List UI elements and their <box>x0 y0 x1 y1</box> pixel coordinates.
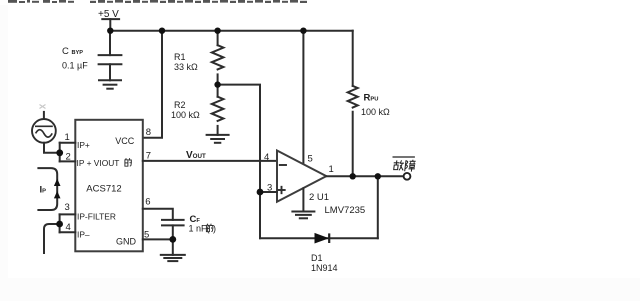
wire feedback up to + node <box>259 192 261 238</box>
svg-text:2: 2 <box>66 152 71 163</box>
svg-text:4: 4 <box>264 152 269 163</box>
wire R2 to ground <box>217 126 219 135</box>
svg-text:2 U1: 2 U1 <box>309 192 329 203</box>
svg-text:1N914: 1N914 <box>311 263 338 273</box>
capacitor C_BYP <box>99 54 122 56</box>
node CF pin5 <box>169 236 176 243</box>
node R1 top <box>214 28 220 34</box>
wire rail to R1 <box>217 31 219 46</box>
svg-text:3: 3 <box>65 202 70 213</box>
arrow IP up 2 <box>54 191 61 198</box>
ground (C_BYP) <box>99 79 121 81</box>
wire source to tie <box>44 143 60 153</box>
label fault char 1 (Chinese) <box>393 160 405 170</box>
wire pin3 stub <box>260 191 277 193</box>
cut-off caption text fragments (top edge) <box>8 0 307 3</box>
node R1/R2 divider <box>214 81 220 87</box>
svg-text:5: 5 <box>144 230 149 241</box>
svg-text:1: 1 <box>65 132 70 143</box>
node +5V entry <box>107 28 113 34</box>
wire source top stub <box>43 112 45 119</box>
svg-text:D1: D1 <box>311 253 323 263</box>
svg-text:R2: R2 <box>174 100 186 110</box>
wire pin3 stub <box>60 213 76 215</box>
ground (CF / ACS712 GND) <box>161 254 185 256</box>
wire C_BYP branch <box>109 31 111 55</box>
current source I symbol <box>32 119 56 143</box>
svg-text:1: 1 <box>329 164 334 175</box>
svg-text:6: 6 <box>145 197 150 208</box>
overline for fault label <box>393 156 415 158</box>
wire pin2 to ground <box>302 188 304 211</box>
wire feedback bottom run <box>260 237 378 239</box>
arrow IP up 1 <box>54 179 61 186</box>
node source tie <box>56 149 63 156</box>
wire top rail <box>110 30 352 32</box>
svg-text:R1: R1 <box>174 52 186 62</box>
wire pin4 exit left <box>44 224 60 253</box>
svg-text:100 kΩ: 100 kΩ <box>171 110 200 120</box>
wire RPU to output node <box>352 112 354 177</box>
svg-text:33 kΩ: 33 kΩ <box>174 62 198 72</box>
wire CF bottom <box>172 225 174 239</box>
svg-text:IP + VIOUT: IP + VIOUT <box>77 158 120 168</box>
wire pin6 to CF <box>143 209 173 220</box>
svg-text:3: 3 <box>267 183 272 194</box>
diode D1 <box>315 233 329 243</box>
svg-text:GND: GND <box>116 236 137 246</box>
node pin5 rail <box>300 28 306 34</box>
wire output <box>326 175 403 177</box>
wire pin5 drop <box>302 31 304 165</box>
svg-text:100 kΩ: 100 kΩ <box>361 107 390 117</box>
faint cropped mark above source <box>40 105 46 109</box>
svg-text:IP–: IP– <box>77 230 90 240</box>
IP loop wire with arrows <box>37 168 57 210</box>
wire pin1-pin2 tie <box>59 143 61 162</box>
wire divider node to comparator + input <box>218 85 260 192</box>
svg-text:IP+: IP+ <box>77 140 90 150</box>
wire pin4 stub <box>60 231 76 233</box>
wire C_BYP to ground <box>109 64 111 80</box>
resistor R2 <box>212 97 224 121</box>
minus input mark <box>280 164 286 166</box>
svg-text:4: 4 <box>66 222 71 233</box>
svg-text:): ) <box>213 224 216 234</box>
wire R1 to node <box>217 74 219 96</box>
svg-text:5: 5 <box>308 154 313 165</box>
svg-text:VCC: VCC <box>115 136 135 146</box>
label fault char 2 (Chinese) <box>405 160 416 172</box>
wire pin2 stub <box>60 160 76 162</box>
resistor RPU <box>348 86 358 108</box>
wire rail corner to RPU <box>352 31 354 86</box>
svg-text:0.1 µF: 0.1 µF <box>62 61 88 71</box>
svg-text:7: 7 <box>146 151 151 162</box>
IC ACS712 <box>75 120 143 252</box>
node feedback tap <box>375 173 381 179</box>
+5V supply bar <box>102 18 119 20</box>
output terminal circle <box>404 173 411 180</box>
ground (U1) <box>292 211 314 213</box>
svg-text:IP-FILTER: IP-FILTER <box>77 212 116 222</box>
svg-text:8: 8 <box>146 127 151 138</box>
node RPU output <box>350 173 356 179</box>
node comparator + input <box>257 189 264 196</box>
op-amp comparator U1 <box>277 151 326 202</box>
svg-text:+5 V: +5 V <box>98 9 119 20</box>
wire feedback down from output <box>377 176 379 238</box>
wire +5V stem <box>109 19 111 31</box>
node VCC drop <box>159 28 165 34</box>
plus input mark <box>278 189 284 191</box>
node pin4 tie <box>56 221 63 228</box>
wire VCC drop <box>143 31 162 138</box>
wire CF node to ground <box>172 239 174 255</box>
wire pin7 VOUT to comparator <box>143 160 277 162</box>
wire pin3-pin4 tie <box>59 214 61 232</box>
svg-text:ACS712: ACS712 <box>86 184 121 195</box>
svg-text:LMV7235: LMV7235 <box>325 205 366 216</box>
ground (R2) <box>207 134 229 136</box>
resistor R1 <box>212 45 224 69</box>
wire pin5 stub <box>143 238 173 240</box>
capacitor CF <box>162 219 184 221</box>
wire pin1 stub <box>60 142 76 144</box>
